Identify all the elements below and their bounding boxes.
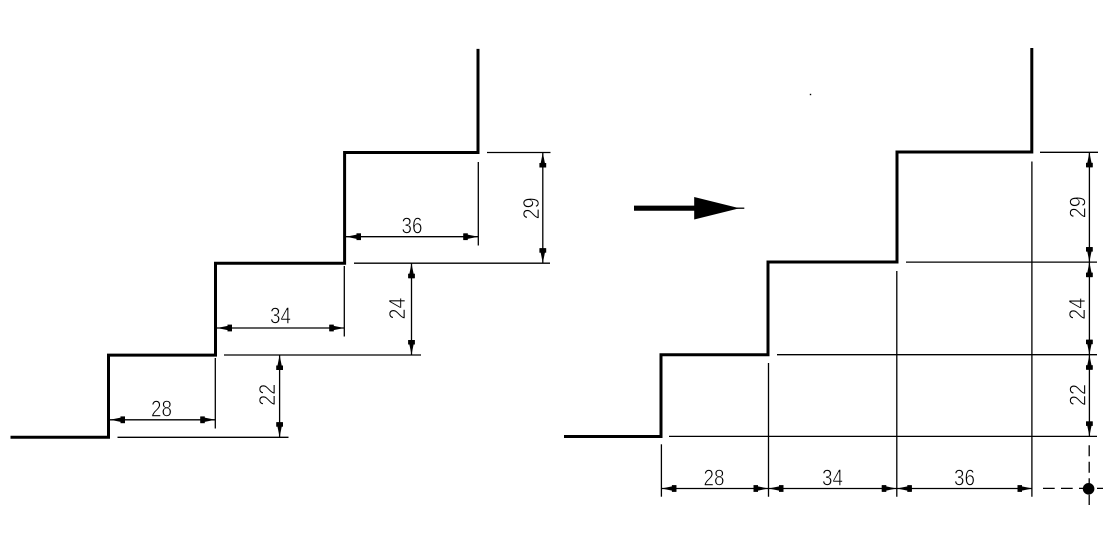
svg-text:29: 29 bbox=[1064, 196, 1090, 218]
dim 24 line bbox=[411, 263, 413, 355]
transform arrow shaft bbox=[634, 206, 697, 211]
dim 36 extension line right bbox=[477, 162, 479, 246]
svg-text:22: 22 bbox=[1065, 384, 1091, 406]
grid extension line horizontal y355 bbox=[777, 354, 1097, 356]
dim 29 line bbox=[542, 153, 544, 264]
svg-text:22: 22 bbox=[254, 384, 280, 406]
dim 29 arrow top bbox=[540, 153, 546, 168]
dim 36 arrow left bbox=[346, 234, 361, 240]
dim 28 arrow left right-figure bbox=[661, 486, 676, 492]
dim 34 arrow right right-figure bbox=[882, 486, 897, 492]
dim 22 arrow bottom bbox=[277, 422, 283, 437]
dim 29 arrow bottom bbox=[540, 248, 546, 263]
transform arrow tip line bbox=[736, 207, 744, 209]
dim 29 arrow bottom right-figure bbox=[1086, 247, 1092, 262]
dim 36 arrow right bbox=[463, 234, 478, 240]
svg-text:24: 24 bbox=[384, 297, 410, 319]
grid extension line horizontal y153 bbox=[1040, 151, 1098, 153]
svg-text:34: 34 bbox=[822, 465, 843, 491]
dim 29 arrow top right-figure bbox=[1086, 152, 1092, 167]
svg-text:36: 36 bbox=[402, 212, 423, 238]
origin leader dashed horizontal bbox=[1043, 487, 1103, 489]
grid extension line vertical x661 bbox=[660, 444, 662, 496]
grid extension line vertical x768 bbox=[768, 363, 770, 497]
dim 22 arrow top bbox=[277, 355, 283, 370]
dim 34 extension line right bbox=[343, 266, 345, 337]
dim 22 arrow bottom right-figure bbox=[1086, 421, 1092, 436]
dim 36 arrow left right-figure bbox=[897, 486, 912, 492]
dim 34 arrow left right-figure bbox=[769, 486, 784, 492]
dim 34 line bbox=[217, 327, 344, 329]
dim 24 arrow top right-figure bbox=[1086, 262, 1092, 277]
dim 28 arrow right bbox=[200, 417, 215, 423]
origin point bbox=[1083, 483, 1095, 495]
dim 34 arrow left bbox=[217, 325, 232, 331]
baseline dim line bottom bbox=[661, 488, 1032, 490]
left stair profile bbox=[11, 49, 479, 437]
dim 24 extension line top shared with dim 29 bbox=[354, 262, 550, 264]
svg-text:28: 28 bbox=[151, 395, 172, 421]
grid extension line vertical x1032 bbox=[1031, 162, 1033, 497]
dim 24 arrow top bbox=[409, 263, 415, 278]
svg-text:29: 29 bbox=[518, 197, 544, 219]
transform arrow head bbox=[694, 197, 739, 220]
dim 36 arrow right right-figure bbox=[1018, 486, 1033, 492]
origin leader dashed vertical bbox=[1088, 445, 1090, 505]
dim 36 line bbox=[346, 236, 478, 238]
dim 28 arrow left bbox=[110, 417, 125, 423]
svg-text:34: 34 bbox=[270, 302, 291, 328]
dim 22 arrow top right-figure bbox=[1086, 355, 1092, 370]
dim 28 line bbox=[110, 419, 215, 421]
dim 24 arrow bottom right-figure bbox=[1086, 340, 1092, 355]
right stair profile bbox=[564, 48, 1032, 437]
dim 29 extension line top bbox=[487, 152, 551, 154]
grid extension line vertical x897 bbox=[896, 271, 898, 497]
dim 22 extension line bottom bbox=[118, 436, 289, 438]
dim 28 extension line right bbox=[214, 358, 216, 429]
svg-text:36: 36 bbox=[954, 465, 975, 491]
grid extension line horizontal y436 bbox=[669, 435, 1097, 437]
grid extension line horizontal y262 bbox=[906, 261, 1097, 263]
svg-text:28: 28 bbox=[704, 465, 725, 491]
dim 34 arrow right bbox=[329, 325, 344, 331]
dim 22 line bbox=[279, 355, 281, 437]
dim 28 arrow right right-figure bbox=[754, 486, 769, 492]
stray dot bbox=[810, 94, 811, 95]
dim 22 extension line top shared with dim 24 bbox=[224, 354, 421, 356]
svg-text:24: 24 bbox=[1064, 298, 1090, 320]
dim 24 arrow bottom bbox=[409, 340, 415, 355]
baseline dim line right bbox=[1088, 152, 1090, 436]
